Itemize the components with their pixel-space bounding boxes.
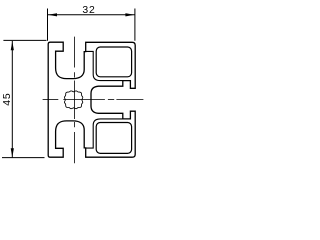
upper-right interior void wall — [86, 51, 123, 80]
vertical centerline — [74, 37, 76, 164]
dimension 45 extension line bottom — [2, 157, 45, 159]
arrow right of 32 — [125, 13, 134, 16]
svg-text:32: 32 — [82, 5, 95, 16]
horizontal centerline — [43, 99, 144, 101]
dimension 45 extension line top — [3, 39, 46, 41]
dimension 32 extension line right — [134, 9, 136, 41]
chamber top-right — [96, 47, 131, 77]
svg-text:45: 45 — [2, 93, 13, 106]
lower-right interior void wall — [86, 119, 123, 148]
arrow top of 45 — [11, 41, 14, 50]
dimension 32 extension line left — [47, 9, 49, 41]
arrow left of 32 — [48, 13, 57, 16]
serrated center screw hole — [64, 91, 82, 109]
chamber bottom-right — [96, 123, 131, 154]
arrow bottom of 45 — [11, 148, 14, 157]
dimension 45 line — [11, 41, 13, 157]
profile outer contour with slots — [48, 42, 135, 157]
dimension 32 line — [48, 14, 135, 16]
